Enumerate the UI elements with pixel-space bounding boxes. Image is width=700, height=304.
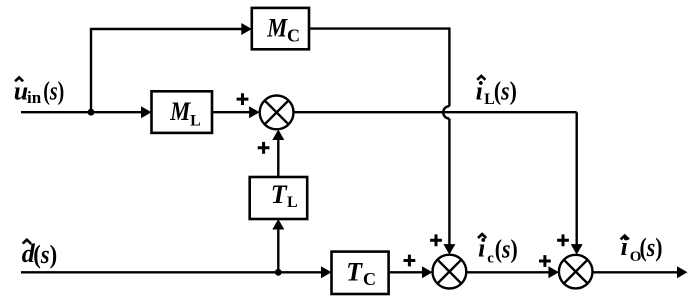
arrowhead into M_C (241, 23, 252, 35)
svg-text:M: M (266, 14, 288, 43)
wire SJ2 output (466, 271, 549, 273)
label i_O(s) (621, 232, 663, 265)
plus sign SJ3 left input (539, 255, 551, 267)
label i_c(s) (478, 233, 518, 266)
arrowhead into T_C (321, 266, 332, 278)
svg-text:T: T (346, 258, 363, 287)
wire branch up from junction to M_C (91, 29, 243, 112)
wire i_L down to SJ3 (576, 112, 578, 245)
arrowhead into SJ1 (249, 106, 260, 118)
label d(s) (22, 239, 57, 269)
wire SJ1 output (i_L line) (294, 111, 577, 113)
svg-text:(s): (s) (43, 76, 64, 105)
arrowhead output right (677, 266, 688, 278)
summing junction SJ1 (260, 96, 294, 130)
svg-text:(s): (s) (33, 240, 57, 269)
block T_L (250, 177, 308, 219)
svg-text:M: M (169, 97, 191, 126)
wire d input (21, 271, 322, 273)
wire continue down to SJ2 (448, 119, 450, 246)
node junction dot on d wire (275, 269, 282, 276)
node junction dot on u_in wire (88, 109, 95, 116)
plus sign SJ1 left input (237, 93, 249, 105)
summing junction SJ2 (433, 255, 467, 289)
summing junction SJ3 (559, 255, 593, 289)
wire i_O output (593, 271, 679, 273)
plus sign SJ3 top input (557, 234, 569, 246)
svg-text:L: L (287, 194, 298, 211)
svg-text:L: L (190, 112, 201, 129)
svg-text:(s): (s) (640, 233, 663, 262)
arrowhead into T_L bottom (272, 219, 284, 230)
svg-text:in: in (27, 88, 42, 107)
arrowhead into SJ1 bottom (272, 130, 284, 141)
block M_C (252, 8, 309, 49)
svg-text:C: C (363, 269, 376, 289)
svg-text:T: T (271, 180, 288, 209)
wire M_C output across and down (309, 29, 449, 107)
wire hop over i_L line (443, 106, 449, 118)
label i_L(s) (476, 76, 517, 108)
arrowhead into SJ3 top (571, 244, 583, 255)
wire M_L output (212, 111, 251, 113)
wire from d line up into T_L (277, 230, 279, 273)
wire T_L output up to SJ1 (277, 140, 279, 178)
plus sign SJ2 left input (404, 255, 416, 267)
arrowhead into M_L (141, 106, 152, 118)
plus sign SJ1 bottom input (258, 142, 270, 154)
block T_C (332, 252, 389, 294)
wire T_C output (389, 271, 423, 273)
block M_L (152, 91, 213, 133)
svg-text:c: c (487, 250, 494, 266)
svg-text:(s): (s) (495, 234, 518, 263)
svg-text:C: C (287, 26, 300, 46)
label u_in(s) (14, 76, 65, 107)
arrowhead into SJ3 left (548, 266, 559, 278)
arrowhead into SJ2 top (443, 244, 455, 255)
arrowhead into SJ2 left (422, 266, 433, 278)
svg-text:(s): (s) (494, 77, 517, 106)
wire u_in input (21, 111, 142, 113)
plus sign SJ2 top input (430, 234, 442, 246)
svg-text:i: i (476, 77, 484, 106)
